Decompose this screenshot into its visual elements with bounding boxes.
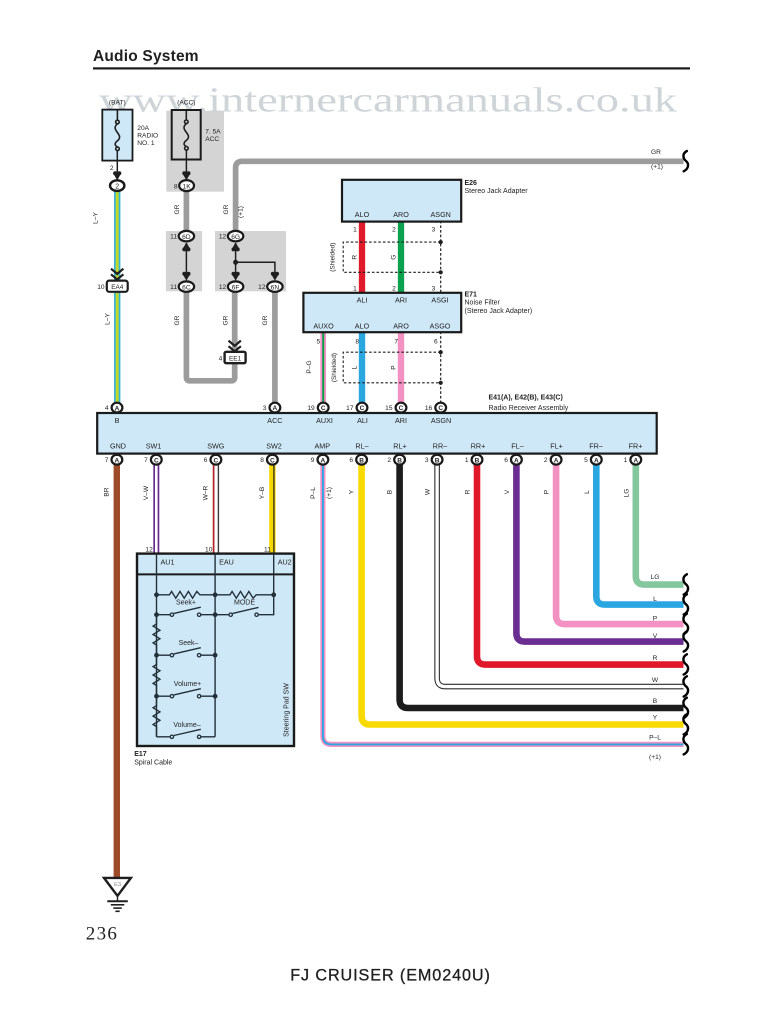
break L [683, 594, 688, 614]
svg-text:EA4: EA4 [111, 284, 124, 291]
svg-text:12: 12 [258, 284, 266, 291]
svg-text:P–L: P–L [310, 487, 317, 499]
svg-text:W–R: W–R [202, 485, 209, 500]
svg-text:A: A [514, 457, 519, 464]
svg-text:Seek–: Seek– [179, 640, 199, 647]
svg-text:6C: 6C [182, 284, 191, 291]
fuse 7.5A ACC symbol [184, 111, 188, 150]
wire L-Y (EA4 to radio pin B) blue base [114, 292, 120, 405]
svg-text:20A: 20A [137, 125, 149, 132]
svg-text:R: R [465, 489, 472, 494]
wire P-L pink base (AMP, elbow to right edge) [323, 464, 684, 744]
svg-text:LG: LG [623, 489, 630, 498]
wire: thin lead from ACC fuse to connector 1K [185, 150, 187, 176]
svg-text:SWG: SWG [207, 441, 225, 450]
svg-text:7: 7 [394, 339, 398, 346]
svg-text:RR–: RR– [433, 441, 447, 450]
svg-text:10: 10 [97, 284, 105, 291]
wire L (E71 ALO to radio ALI) [359, 332, 365, 405]
svg-text:ARO: ARO [393, 322, 409, 331]
svg-text:L: L [653, 596, 657, 603]
svg-text:ALO: ALO [355, 210, 370, 219]
svg-text:L: L [351, 365, 358, 369]
resistor MODE [215, 591, 274, 598]
svg-text:3: 3 [432, 286, 436, 293]
svg-text:6G: 6G [231, 234, 240, 241]
svg-text:1: 1 [353, 226, 357, 233]
svg-text:Volume–: Volume– [173, 722, 200, 729]
svg-text:6F: 6F [232, 284, 240, 291]
wire V-W white stripe [155, 464, 158, 555]
oval 2 below BAT fuse [110, 180, 124, 191]
wire B (RL+, elbow to right edge) [400, 464, 684, 708]
svg-text:Spiral Cable: Spiral Cable [134, 759, 172, 766]
svg-text:236: 236 [86, 924, 118, 945]
vertical resistor 3 on AU1 [153, 696, 160, 737]
wire LG (FR+, elbow to right edge) [636, 464, 684, 585]
svg-text:B: B [397, 457, 402, 464]
arrow down at ACC lead [182, 173, 190, 180]
dashed shield wire E71 ASGO to radio ASGN [440, 332, 442, 404]
break Y [683, 714, 688, 734]
E17 vertical line EAU [214, 554, 216, 737]
svg-text:C: C [154, 457, 159, 464]
svg-text:AUXO: AUXO [313, 322, 334, 331]
svg-text:2: 2 [387, 457, 391, 464]
svg-text:17: 17 [346, 405, 354, 412]
box Radio Receiver Assembly [97, 413, 657, 454]
shield junction dot lower-top [439, 350, 443, 354]
svg-text:ASGN: ASGN [431, 416, 451, 425]
thin link 6D to 6C with arrows [185, 243, 187, 279]
wire GR from 1K to 6D [184, 191, 190, 232]
svg-text:L: L [584, 490, 591, 494]
wire BR (radio GND to ground E3) [114, 464, 120, 878]
wire V-W purple base (SW1 to E17 AU1) [153, 464, 159, 555]
svg-text:B: B [435, 457, 440, 464]
wire Y (RL-, elbow to right edge) [362, 464, 684, 725]
switch row Volume- [157, 729, 216, 737]
svg-text:FR–: FR– [589, 441, 603, 450]
svg-text:GR: GR [651, 149, 661, 156]
svg-text:(Stereo Jack Adapter): (Stereo Jack Adapter) [465, 308, 533, 315]
ground stem [117, 896, 119, 901]
svg-text:FL–: FL– [511, 441, 523, 450]
svg-text:2: 2 [392, 226, 396, 233]
E17 vertical line AU2 [273, 554, 275, 595]
svg-text:AU2: AU2 [278, 557, 292, 566]
svg-text:V: V [653, 633, 658, 640]
svg-text:12: 12 [219, 284, 227, 291]
svg-text:LG: LG [651, 574, 660, 581]
svg-text:12: 12 [219, 234, 227, 241]
svg-text:Audio System: Audio System [93, 48, 199, 65]
svg-text:5: 5 [317, 339, 321, 346]
wire Y-B yellow base (SW2 to E17 AU2) [269, 464, 275, 555]
svg-text:GR: GR [174, 315, 181, 325]
break B [683, 698, 688, 718]
svg-text:ASGN: ASGN [431, 210, 451, 219]
svg-text:A: A [633, 457, 638, 464]
svg-text:BR: BR [103, 487, 110, 496]
svg-text:ACC: ACC [205, 136, 219, 143]
fuse 20A RADIO NO.1 symbol (circles + S-wiggle) [115, 111, 119, 151]
arrow up below 6G [232, 242, 240, 249]
E17 header separator line [137, 573, 294, 575]
svg-text:ARI: ARI [395, 296, 407, 305]
break LG [683, 574, 688, 594]
svg-text:ASGI: ASGI [431, 296, 448, 305]
svg-text:ACC: ACC [267, 416, 282, 425]
svg-text:FL+: FL+ [550, 441, 563, 450]
svg-text:P–L: P–L [649, 735, 661, 742]
svg-text:E17: E17 [134, 751, 147, 758]
arrow up below 6D [182, 242, 190, 249]
svg-text:Radio Receiver Assembly: Radio Receiver Assembly [489, 405, 569, 412]
shaded block around ACC fuse [166, 111, 224, 192]
switch contact circles [170, 613, 258, 739]
double chevron above EE1 [229, 341, 241, 352]
svg-text:(Shielded): (Shielded) [331, 353, 338, 382]
wire G (E26 ARO to E71 ARI) [398, 221, 404, 294]
break P [683, 614, 688, 634]
svg-text:2: 2 [544, 457, 548, 464]
switch row Seek- [157, 648, 216, 656]
svg-text:1: 1 [624, 457, 628, 464]
svg-text:11: 11 [264, 547, 271, 554]
svg-text:2: 2 [115, 183, 119, 190]
vertical resistor 2 on AU1 [153, 655, 160, 696]
svg-text:8: 8 [355, 339, 359, 346]
shield junction dot lower-bottom [439, 381, 443, 385]
svg-text:W: W [425, 488, 432, 495]
wire P-G pink base (E71 AUXO to radio AUXI) [320, 332, 326, 405]
svg-text:6: 6 [204, 457, 208, 464]
junction dot at 6G branch [233, 260, 238, 265]
radio bottom pin circles [112, 455, 642, 465]
svg-text:C: C [321, 405, 326, 412]
svg-text:A: A [273, 405, 278, 412]
svg-text:V: V [504, 489, 511, 494]
svg-text:12: 12 [145, 547, 153, 554]
connector box EA4 [107, 281, 128, 292]
svg-text:ALI: ALI [357, 416, 368, 425]
svg-text:A: A [321, 457, 326, 464]
svg-text:3: 3 [263, 405, 267, 412]
svg-text:MODE: MODE [234, 600, 255, 607]
svg-text:GR: GR [223, 315, 230, 325]
thin link 6G to junction [235, 243, 237, 279]
svg-text:6: 6 [504, 457, 508, 464]
radio top pin circles [112, 403, 447, 413]
wire GR U-loop from 6C down, right, up through EE1 to 6F [186, 292, 234, 381]
svg-text:W: W [652, 677, 659, 684]
svg-text:7. 5A: 7. 5A [205, 129, 221, 136]
shielded dashed box lower [343, 352, 441, 383]
fuse box (ACC) [172, 110, 201, 160]
svg-text:RADIO: RADIO [137, 133, 158, 140]
wire W outline (RR-, elbow to right edge) [437, 464, 683, 687]
svg-text:(Shielded): (Shielded) [330, 243, 337, 272]
svg-text:3: 3 [432, 226, 436, 233]
wire P (FL+, elbow to right edge) [556, 464, 683, 624]
svg-text:SW1: SW1 [146, 441, 162, 450]
wire L-Y yellow stripe lower [116, 292, 119, 405]
double chevron above EA4 [111, 269, 123, 280]
svg-text:8: 8 [260, 457, 264, 464]
svg-text:ARO: ARO [393, 210, 409, 219]
svg-text:19: 19 [307, 405, 315, 412]
E17 vertical line AU1 [156, 554, 158, 737]
svg-text:C: C [214, 457, 219, 464]
svg-text:(ACC): (ACC) [177, 100, 195, 107]
arrow down at BAT lead [113, 173, 121, 180]
svg-text:Y: Y [653, 715, 658, 722]
svg-text:10: 10 [205, 547, 213, 554]
svg-text:7: 7 [105, 457, 109, 464]
box E26 Stereo Jack Adapter [342, 180, 461, 222]
oval 6G [228, 231, 243, 241]
svg-text:7: 7 [144, 457, 148, 464]
svg-text:8: 8 [174, 183, 178, 190]
svg-text:GND: GND [110, 441, 126, 450]
svg-text:B: B [115, 416, 120, 425]
svg-text:(BAT): (BAT) [109, 100, 126, 107]
svg-text:AUXI: AUXI [316, 416, 333, 425]
fuse box (BAT) [102, 110, 132, 161]
svg-text:SW2: SW2 [266, 441, 282, 450]
wire GR from 6N to radio ACC pin [272, 292, 278, 406]
wire L-Y yellow stripe [116, 191, 119, 292]
svg-text:1K: 1K [183, 183, 192, 190]
svg-text:3: 3 [425, 457, 429, 464]
svg-text:2: 2 [392, 286, 396, 293]
vertical resistor 1 on AU1 [153, 615, 160, 656]
svg-text:P: P [653, 615, 658, 622]
shaded block around connectors 6D/6C [166, 231, 202, 291]
svg-text:R: R [653, 655, 658, 662]
svg-text:(+1): (+1) [238, 206, 245, 218]
svg-text:ALO: ALO [355, 322, 370, 331]
svg-text:RL–: RL– [355, 441, 368, 450]
box E17 Spiral Cable [137, 554, 294, 746]
svg-text:A: A [554, 457, 559, 464]
svg-text:A: A [115, 458, 120, 465]
svg-text:B: B [387, 489, 394, 494]
svg-text:AMP: AMP [315, 441, 331, 450]
shield junction dot upper-top [439, 240, 443, 244]
svg-text:RR+: RR+ [471, 441, 486, 450]
wire R (E26 ALO to E71 ALI) [359, 221, 365, 294]
svg-text:FJ CRUISER (EM0240U): FJ CRUISER (EM0240U) [290, 967, 491, 985]
arrow down above 6N [271, 274, 279, 281]
wire W white core [437, 464, 683, 687]
svg-text:6D: 6D [182, 234, 191, 241]
svg-text:Noise Filter: Noise Filter [465, 300, 501, 307]
arrow down above 6F [232, 274, 240, 281]
ground triangle E3 [104, 878, 131, 896]
svg-text:(+1): (+1) [326, 487, 333, 499]
E17 junction dots [154, 592, 276, 698]
svg-text:A: A [115, 405, 120, 412]
svg-text:GR: GR [223, 204, 230, 214]
svg-text:ARI: ARI [395, 416, 407, 425]
oval 6C [179, 281, 194, 291]
thin branch junction to 6N [236, 262, 275, 279]
switch row Volume+ [157, 689, 216, 697]
svg-text:C: C [438, 405, 443, 412]
svg-text:GR: GR [262, 315, 269, 325]
svg-text:G: G [390, 255, 397, 260]
svg-text:B: B [653, 698, 658, 705]
svg-text:1: 1 [465, 457, 469, 464]
svg-text:5: 5 [584, 457, 588, 464]
svg-text:6N: 6N [271, 284, 280, 291]
svg-text:P: P [544, 489, 551, 494]
break V [683, 631, 688, 651]
svg-text:B: B [359, 457, 364, 464]
svg-text:E41(A), E42(B), E43(C): E41(A), E42(B), E43(C) [489, 395, 563, 402]
break R [683, 654, 688, 674]
wire R (RR+, elbow to right edge) [477, 464, 684, 665]
svg-text:C: C [360, 405, 365, 412]
shielded dashed box upper [343, 242, 441, 272]
svg-text:ASGO: ASGO [430, 322, 451, 331]
oval 6N [267, 281, 282, 291]
svg-text:(+1): (+1) [649, 754, 661, 761]
wire P-G green stripe [322, 332, 324, 405]
svg-text:11: 11 [170, 234, 177, 241]
svg-text:EE1: EE1 [229, 355, 242, 362]
dashed shield wire E26 ASGN to E71 ASGI [440, 221, 442, 293]
svg-text:9: 9 [311, 457, 315, 464]
svg-text:Y–B: Y–B [259, 486, 266, 499]
wire Y-B black stripe [273, 464, 275, 555]
wire W-R left red line (SWG to E17 EAU) [213, 464, 215, 555]
switch row Seek+ (left) [157, 607, 216, 615]
wire GR from top horizontal down to 6G [236, 161, 684, 232]
oval 1K below ACC fuse [179, 180, 194, 191]
oval 6F [228, 281, 243, 291]
svg-text:P: P [390, 365, 397, 370]
svg-text:(+1): (+1) [651, 164, 663, 171]
wire V (FL-, elbow to right edge) [516, 464, 683, 642]
svg-text:L–Y: L–Y [105, 313, 112, 325]
svg-text:B: B [475, 457, 480, 464]
wire L-Y (fuse 2 to EA4) blue base [114, 191, 120, 292]
svg-text:FR+: FR+ [629, 441, 643, 450]
svg-text:L–Y: L–Y [93, 212, 100, 224]
svg-text:16: 16 [425, 405, 433, 412]
oval 6D [179, 231, 194, 241]
svg-text:4: 4 [105, 405, 109, 412]
svg-text:1: 1 [353, 286, 357, 293]
svg-text:AU1: AU1 [161, 557, 175, 566]
break P-L [683, 734, 688, 754]
svg-text:6: 6 [349, 457, 353, 464]
title underline rule [93, 67, 690, 69]
svg-text:V–W: V–W [143, 485, 150, 500]
svg-text:Seek+: Seek+ [176, 600, 196, 607]
svg-text:6: 6 [434, 339, 438, 346]
shaded block around connectors 6G/6F/6N [215, 231, 286, 291]
svg-text:EAU: EAU [219, 557, 234, 566]
resistor Seek+ [157, 591, 216, 598]
svg-text:E3: E3 [114, 882, 121, 888]
wire P-L blue stripe [323, 464, 684, 744]
wire: thin lead from BAT fuse to connector 2 [116, 151, 118, 177]
svg-text:E71: E71 [465, 292, 478, 299]
svg-text:A: A [594, 457, 599, 464]
svg-text:C: C [270, 457, 275, 464]
svg-text:Y: Y [349, 489, 356, 494]
svg-text:C: C [399, 405, 404, 412]
break W [683, 676, 688, 696]
svg-text:11: 11 [170, 284, 177, 291]
arrow down above 6C [182, 274, 190, 281]
svg-text:GR: GR [174, 204, 181, 214]
svg-text:P–G: P–G [306, 360, 313, 373]
wire L (FR-, elbow to right edge) [596, 464, 683, 605]
svg-text:4: 4 [219, 355, 223, 362]
wire P (E71 ARO to radio ARI) [398, 332, 404, 405]
svg-text:ALI: ALI [357, 296, 368, 305]
svg-text:2: 2 [110, 165, 114, 172]
svg-text:Steering Pad SW: Steering Pad SW [283, 683, 290, 737]
svg-text:Stereo Jack Adapter: Stereo Jack Adapter [465, 188, 529, 195]
svg-text:RL+: RL+ [393, 441, 406, 450]
ground bars [107, 900, 128, 902]
box E71 Noise Filter [303, 293, 461, 332]
svg-text:15: 15 [385, 405, 393, 412]
svg-text:NO. 1: NO. 1 [137, 140, 155, 147]
svg-text:R: R [351, 255, 358, 260]
break GR top [683, 151, 688, 171]
connector box EE1 [225, 352, 246, 363]
switch row MODE (right) [215, 595, 274, 615]
shield junction dot upper-bottom [439, 270, 443, 274]
svg-text:E26: E26 [465, 180, 478, 187]
wire W-R right dark line [217, 464, 219, 555]
svg-text:Volume+: Volume+ [174, 681, 201, 688]
